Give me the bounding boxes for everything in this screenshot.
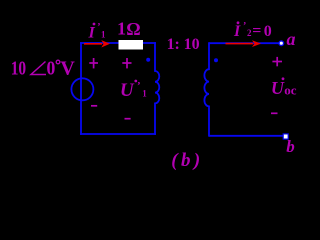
svg-text:b: b	[286, 137, 295, 156]
svg-text:’: ’	[243, 21, 246, 32]
svg-text:10: 10	[11, 57, 26, 79]
svg-text:0: 0	[47, 57, 56, 79]
svg-text:a: a	[287, 29, 296, 49]
svg-text:’: ’	[137, 80, 141, 92]
svg-text:oc: oc	[284, 82, 297, 97]
svg-text:0: 0	[264, 23, 272, 40]
svg-text:U: U	[120, 80, 135, 101]
svg-text:1: 1	[101, 30, 106, 40]
svg-text:I: I	[233, 23, 241, 40]
svg-text:Ω: Ω	[126, 19, 140, 39]
svg-text:V: V	[60, 57, 75, 79]
svg-text:=: =	[252, 23, 261, 40]
svg-text:I: I	[88, 24, 96, 41]
svg-text:1: 1	[142, 88, 147, 98]
svg-text:1: 1	[117, 19, 126, 39]
svg-text:(b): (b)	[171, 150, 203, 171]
svg-text:1: 10: 1: 10	[167, 36, 200, 53]
svg-text:U: U	[271, 78, 285, 98]
